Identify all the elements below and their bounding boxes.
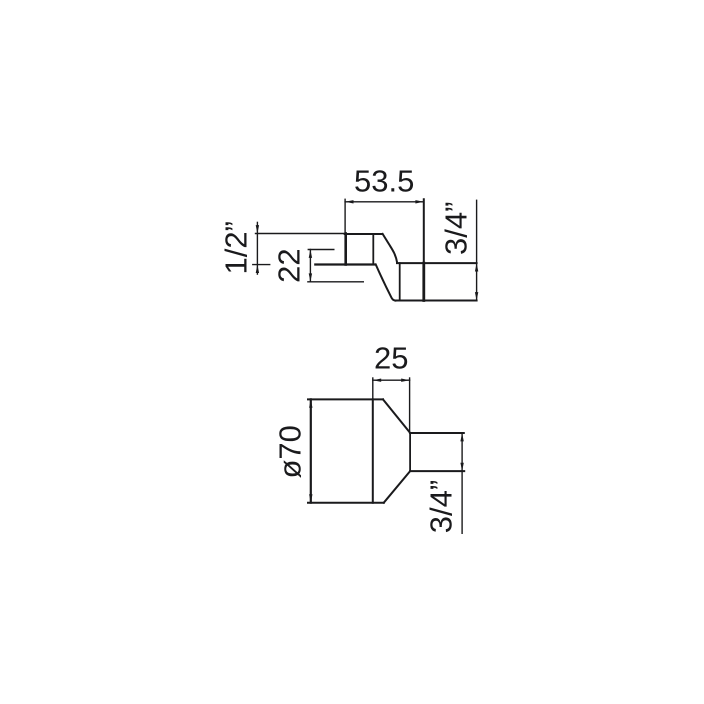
outlet stub top edge — [410, 432, 464, 434]
svg-text:3/4”: 3/4” — [439, 202, 474, 255]
cylinder bottom edge — [308, 502, 384, 504]
upper S-curve of body — [383, 234, 398, 263]
cylinder/cone boundary vertical (with 25 extension above) — [372, 378, 374, 399]
extension line top of 1/2" — [256, 233, 347, 235]
svg-text:3/4”: 3/4” — [424, 480, 459, 533]
extension line right of 25 — [409, 378, 411, 433]
cone upper chamfer — [383, 399, 410, 433]
dimension 3/4" (top view) lower arrow — [475, 292, 478, 300]
lower S-curve of body — [376, 264, 396, 300]
fitting thread boundary vertical (upper) — [372, 234, 374, 265]
fitting left face (1/2" end) — [344, 234, 347, 265]
dimension 22 bottom arrow — [309, 273, 312, 281]
dimension 3/4" (top view) upper arrow — [475, 263, 478, 271]
dimension ø70 bottom arrow — [309, 494, 312, 502]
extension line bottom of 22 (lower axis) — [308, 281, 363, 283]
extension line top of 22 (upper axis) — [308, 249, 334, 251]
dimension 53.5 right arrow — [415, 200, 423, 203]
dimension 1/2" line — [256, 222, 258, 274]
svg-text:22: 22 — [271, 248, 306, 282]
outlet stub left face — [409, 433, 411, 471]
dimension 1/2" bottom arrow (outside, points up) — [256, 265, 259, 273]
outlet pipe top edge — [397, 262, 477, 264]
dimension 3/4" (bottom view) upper arrow — [460, 433, 463, 441]
cone lower chamfer — [384, 471, 410, 503]
svg-text:1/2”: 1/2” — [218, 221, 253, 274]
dimension 3/4" (bottom view) lower arrow — [460, 463, 463, 471]
dimension 25 right arrow — [401, 379, 409, 382]
dimension ø70 line / cylinder left face — [310, 399, 312, 502]
dimension 3/4" (bottom view) line — [461, 433, 463, 533]
outlet pipe bottom edge — [395, 300, 476, 302]
extension line left of 53.5 — [344, 199, 346, 233]
outlet pipe end face (thick, with 53.5 extension) — [422, 263, 425, 300]
dimension ø70 top arrow — [309, 399, 312, 407]
extension line right of 53.5 — [423, 199, 425, 263]
dimension 22 top arrow — [309, 250, 312, 258]
svg-text:ø70: ø70 — [273, 425, 308, 478]
dimension 25 left arrow — [373, 379, 381, 382]
dimension 53.5 left arrow — [345, 200, 353, 203]
cylinder top edge — [308, 398, 383, 400]
dimension 3/4" (top view) line — [476, 200, 478, 300]
dimension 25 line — [373, 379, 410, 381]
outlet stub bottom edge — [410, 470, 464, 472]
dimension 22 line — [309, 250, 311, 282]
outlet pipe boundary vertical — [399, 263, 401, 300]
fitting top edge — [345, 233, 383, 235]
extension line bottom of 1/2" (short) — [253, 264, 270, 266]
dimension 1/2" top arrow (outside, points down) — [256, 225, 259, 233]
dimension 53.5 line — [345, 201, 424, 203]
bottom edge of upper pipe — [315, 263, 375, 265]
svg-text:25: 25 — [374, 341, 408, 376]
svg-text:53.5: 53.5 — [354, 164, 414, 199]
